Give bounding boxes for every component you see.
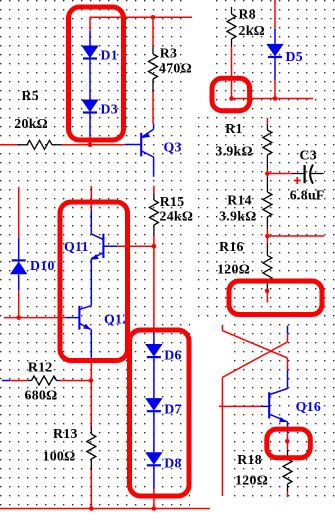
wire base rail R5 to Q3 [62, 144, 125, 146]
transistor Q12 [65, 295, 91, 357]
svg-text:R16: R16 [219, 239, 244, 254]
diode D10 [10, 187, 27, 318]
svg-text:R13: R13 [53, 426, 78, 441]
wire D8 to bottom rail [153, 489, 155, 509]
svg-text:100Ω: 100Ω [43, 449, 76, 464]
node junction R13 bottom rail [89, 506, 94, 511]
transistor Q3 [125, 124, 154, 177]
resistor R5 [0, 140, 62, 149]
wire Q11 emitter to Q12 collector [90, 272, 92, 295]
svg-text:R5: R5 [22, 88, 39, 103]
node junction D3 base rail [88, 143, 93, 148]
svg-text:D7: D7 [164, 402, 181, 417]
highlight box around Q16 emitter node [267, 429, 311, 458]
wire stub left of cross [221, 325, 223, 331]
wire Q16 base [219, 405, 262, 407]
svg-text:C3: C3 [300, 148, 317, 163]
node junction top rail / R3 [151, 15, 156, 20]
svg-text:Q16: Q16 [296, 399, 321, 414]
node junction R1 C3 [265, 171, 270, 176]
wire top rail [90, 16, 192, 18]
svg-text:24kΩ: 24kΩ [160, 209, 194, 224]
wire R14 to R16 [266, 229, 268, 243]
svg-text:120Ω: 120Ω [217, 262, 250, 277]
resistor R1 [263, 118, 272, 170]
node junction D8 bottom rail [152, 506, 157, 511]
wire left vertical rail [221, 377, 223, 496]
wire R15 node down to D6 [153, 246, 155, 331]
wire Q16 emitter down [287, 433, 289, 450]
svg-text:120Ω: 120Ω [235, 473, 268, 488]
node junction R8 [229, 96, 234, 101]
wire D3 to base rail [89, 136, 91, 145]
wire into Q11 collector [90, 186, 92, 210]
capacitor C3 [292, 165, 324, 184]
wire C3 branch [267, 173, 292, 175]
svg-text:2kΩ: 2kΩ [239, 23, 266, 38]
wire bottom rail [0, 508, 210, 510]
node junction R12 [89, 378, 94, 383]
svg-text:6.8uF: 6.8uF [290, 188, 325, 203]
resistor R15 [149, 186, 158, 247]
wire Q11 base to R15 [117, 245, 153, 247]
resistor R18 [283, 450, 292, 497]
highlight box around Q11 Q12 [60, 202, 128, 361]
transistor Q16 [262, 370, 288, 433]
svg-text:R14: R14 [227, 193, 252, 208]
svg-text:D5: D5 [286, 49, 303, 64]
svg-text:Q11: Q11 [64, 239, 89, 254]
svg-text:D3: D3 [101, 102, 118, 117]
diode D7 [145, 398, 162, 452]
node junction D10 [16, 315, 21, 320]
resistor R3 [149, 17, 158, 123]
svg-text:D10: D10 [30, 258, 55, 273]
wire cross diagonal B [222, 342, 287, 378]
svg-text:D6: D6 [164, 348, 181, 363]
svg-text:3.9kΩ: 3.9kΩ [219, 209, 256, 224]
diode D1 [81, 31, 98, 100]
node junction R15 Q11 base [152, 244, 157, 249]
highlight box below R16 [229, 281, 322, 315]
wire stub above Q16 collector [287, 326, 289, 334]
resistor R12 [2, 376, 91, 385]
svg-text:3.9kΩ: 3.9kΩ [215, 144, 252, 159]
resistor R8 [227, 7, 236, 99]
wire collector top segment [287, 334, 289, 342]
resistor R13 [87, 426, 96, 509]
svg-text:R18: R18 [237, 452, 262, 467]
wire R1 to R14 [266, 170, 268, 177]
node junction D5 [273, 96, 278, 101]
svg-text:680Ω: 680Ω [25, 388, 58, 403]
highlight box around D1 D3 [69, 7, 124, 140]
svg-text:R15: R15 [160, 194, 185, 209]
node junction R14 R16 [265, 234, 270, 239]
svg-text:20kΩ: 20kΩ [14, 116, 48, 131]
transistor Q11 [91, 210, 117, 272]
svg-text:D1: D1 [101, 48, 118, 63]
svg-text:470Ω: 470Ω [159, 61, 192, 76]
svg-text:R8: R8 [239, 7, 256, 22]
svg-text:D8: D8 [164, 456, 181, 471]
highlight box around D6 D7 D8 [130, 330, 190, 496]
wire Q12 emitter down [90, 357, 92, 427]
svg-text:Q3: Q3 [164, 140, 182, 155]
resistor R14 [263, 177, 272, 229]
diode D8 [145, 452, 162, 489]
diode D3 [81, 100, 98, 137]
wire D10 node to Q12 base [4, 317, 65, 319]
wire D1 branch upper [89, 17, 91, 31]
svg-text:R1: R1 [225, 121, 242, 136]
svg-text:R3: R3 [160, 46, 177, 61]
wire collector link [287, 358, 289, 370]
svg-text:R12: R12 [28, 360, 53, 375]
wire cross diagonal A [222, 331, 287, 358]
node junction below R16 [265, 289, 270, 294]
wire R8 to D5 rail [232, 98, 314, 100]
highlight box around R8 node [212, 78, 250, 110]
diode D5 [266, 0, 283, 99]
diode D6 [145, 331, 162, 398]
node junction Q16 emitter [285, 439, 290, 444]
wire R14 node branch [267, 235, 324, 237]
resistor R16 [263, 243, 272, 302]
